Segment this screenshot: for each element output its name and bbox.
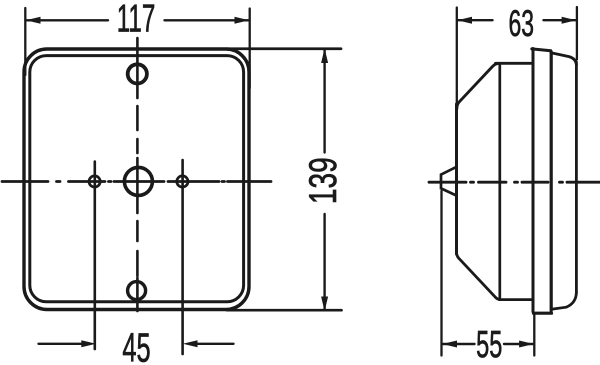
arrowhead 117 right (235, 17, 250, 24)
side view bottom slant (457, 250, 501, 300)
side view rim back vertical B (532, 49, 535, 312)
svg-text:45: 45 (122, 325, 150, 365)
side view mounting bracket tab (441, 167, 457, 196)
dimension line 55 right segment (504, 343, 533, 345)
horizontal centerline side view (dash-dot) (429, 181, 600, 184)
dimension line 117 left segment (27, 19, 109, 21)
dimension line 63 left segment (458, 19, 493, 21)
arrowhead 55 right (519, 341, 534, 348)
side view rim bottom horizontal (534, 312, 552, 315)
dimension line 63 right segment (544, 19, 576, 21)
bottom mounting hole (128, 282, 146, 300)
extension line 117 left (24, 8, 26, 75)
dimension line 117 right segment (165, 19, 249, 21)
center circle (lamp center target) (124, 167, 152, 195)
top mounting hole (128, 64, 147, 83)
side view rim top horizontal (532, 49, 551, 51)
side view silhouette edge A (498, 64, 501, 297)
arrowhead 63 right (562, 17, 577, 24)
arrowhead 55 left (442, 341, 457, 348)
horizontal centerline front view (dash-dot) (2, 180, 271, 183)
side view lens back vertical C (550, 52, 553, 311)
vertical centerline front view (136, 38, 139, 311)
extension line 55 right (533, 314, 535, 356)
small cross hole left (94, 162, 97, 350)
front view outer body outline (24, 49, 249, 310)
side view body bottom horizontal (500, 298, 533, 301)
extension line top edge extended right (139 top) (227, 47, 341, 50)
side view top horizontal body line (496, 62, 534, 65)
extension line 63 left (456, 8, 458, 105)
front view inner body outline (30, 56, 244, 302)
dimension line 139 upper segment with up arrow (323, 50, 325, 153)
svg-text:139: 139 (301, 157, 345, 204)
extension line 55 left (440, 191, 442, 356)
dimension line 55 left segment (443, 343, 475, 345)
dimension line 45 right segment with arrow pointing left (197, 343, 234, 345)
side view top slant (457, 63, 499, 109)
side view lens top slope (551, 53, 576, 65)
extension line 63 right (576, 7, 578, 60)
arrowhead 63 left (457, 17, 472, 24)
arrowhead 117 left (26, 17, 41, 24)
svg-text:117: 117 (117, 0, 156, 40)
side view lens front vertical D (575, 62, 578, 293)
side view lens bottom curve (551, 293, 576, 310)
dimension line 139 lower segment with down arrow (323, 214, 325, 310)
svg-text:55: 55 (476, 322, 502, 365)
dimension line 45 left segment with arrow pointing right (39, 343, 83, 345)
extension line 117 right (249, 9, 251, 89)
small cross hole right (181, 160, 184, 354)
svg-text:63: 63 (509, 3, 535, 45)
side view back edge (455, 104, 458, 254)
extension line bottom edge extended right (139 bottom) (227, 309, 342, 312)
